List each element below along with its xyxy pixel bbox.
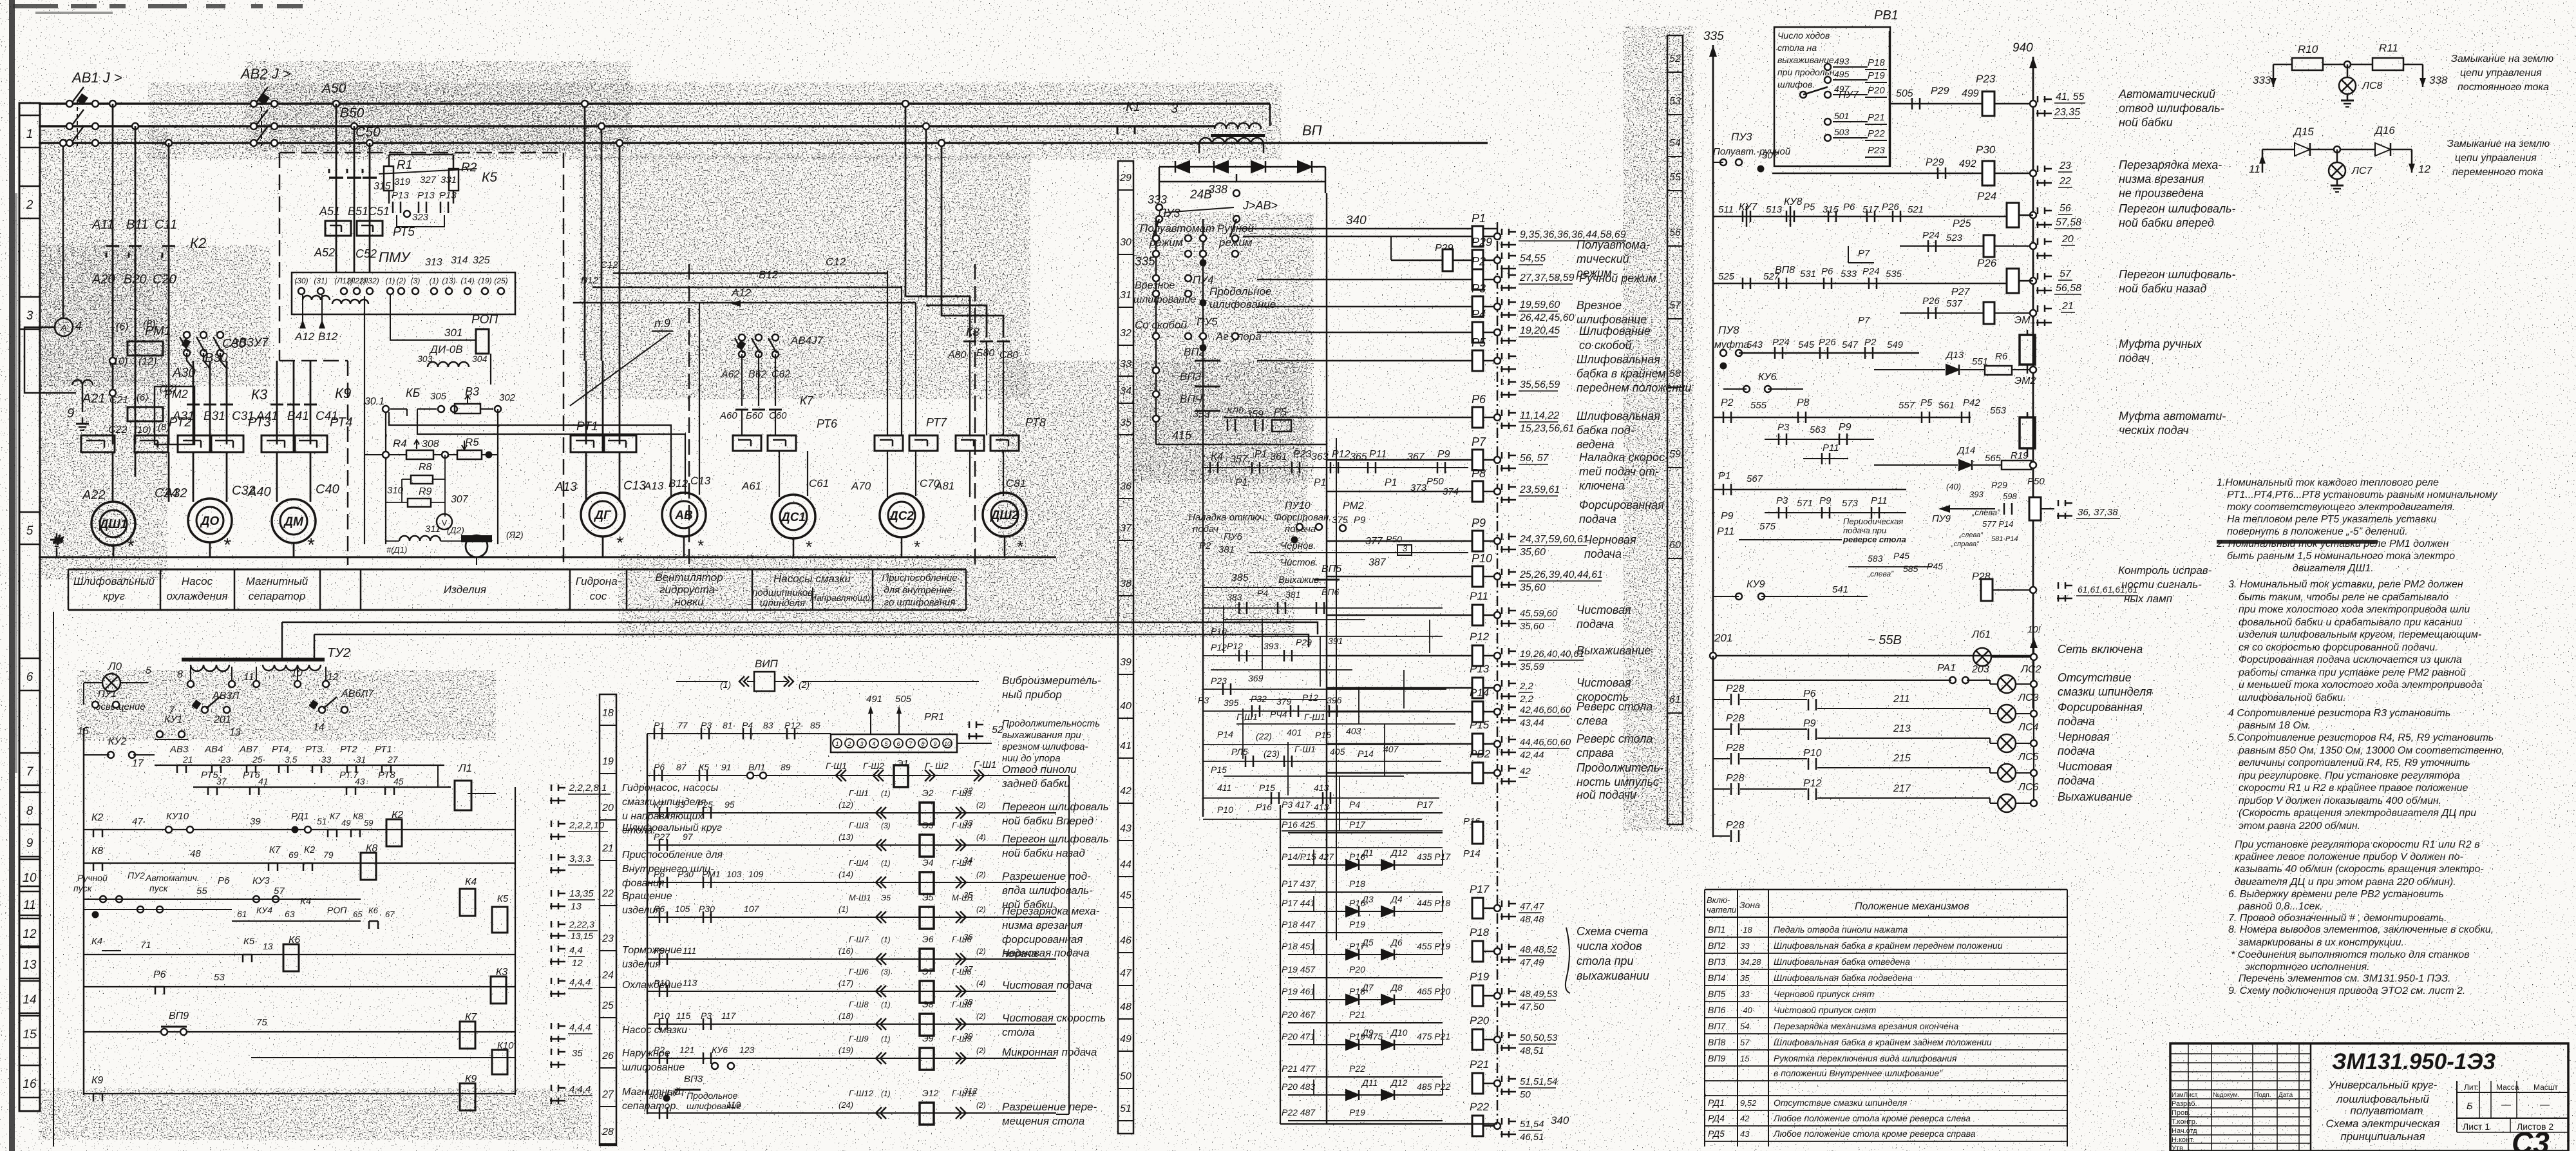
svg-text:сепаратор.: сепаратор. bbox=[622, 1101, 679, 1112]
svg-text:Р18 447: Р18 447 bbox=[1282, 919, 1316, 929]
svg-text:30: 30 bbox=[1120, 237, 1132, 248]
svg-text:(4): (4) bbox=[976, 833, 986, 842]
motor DTs with brush bar bbox=[461, 535, 492, 542]
svg-text:АВ: АВ bbox=[674, 509, 693, 522]
svg-text:Р6: Р6 bbox=[153, 969, 166, 980]
svg-text:Р14: Р14 bbox=[1470, 687, 1489, 699]
svg-text:Чистовая: Чистовая bbox=[2058, 760, 2112, 773]
svg-text:413: 413 bbox=[1314, 783, 1329, 793]
svg-text:405: 405 bbox=[1330, 747, 1345, 757]
wire 11-12 bbox=[2262, 149, 2295, 151]
svg-text:37: 37 bbox=[1120, 523, 1132, 534]
svg-text:С81: С81 bbox=[1006, 477, 1026, 490]
svg-text:Перезарядка механизма врезания: Перезарядка механизма врезания окончена bbox=[1774, 1021, 1958, 1031]
svg-text:R19: R19 bbox=[2011, 450, 2029, 461]
svg-text:КУ9: КУ9 bbox=[1747, 579, 1765, 590]
svg-text:(1): (1) bbox=[881, 1089, 891, 1098]
svg-text:15,23,56,61: 15,23,56,61 bbox=[1520, 423, 1575, 434]
svg-text:РД5: РД5 bbox=[1708, 1128, 1725, 1139]
svg-text:Р11: Р11 bbox=[1823, 442, 1839, 453]
svg-text:Шлифовальная: Шлифовальная bbox=[1577, 353, 1660, 366]
svg-text:Р2: Р2 bbox=[1199, 540, 1211, 551]
svg-text:(Д2): (Д2) bbox=[447, 525, 464, 535]
svg-text:С40: С40 bbox=[316, 482, 339, 497]
svg-text:Насосы смазки: Насосы смазки bbox=[773, 573, 851, 585]
rung P2 555 P8 557 bbox=[1713, 417, 1971, 419]
dashed enclosure bbox=[279, 152, 563, 154]
svg-text:переднем положении: переднем положении bbox=[1577, 381, 1691, 394]
svg-text:Р28: Р28 bbox=[1726, 820, 1745, 831]
svg-text:393: 393 bbox=[1264, 641, 1279, 651]
svg-text:А41: А41 bbox=[256, 410, 278, 423]
svg-text:Чистовой припуск снят: Чистовой припуск снят bbox=[1774, 1005, 1877, 1015]
svg-text:48,51: 48,51 bbox=[1520, 1045, 1544, 1056]
svg-text:Р3: Р3 bbox=[1777, 422, 1790, 433]
svg-text:Г-Ш12: Г-Ш12 bbox=[849, 1089, 874, 1098]
svg-text:35,60: 35,60 bbox=[1520, 582, 1546, 593]
latch loop verticals bbox=[1313, 850, 1314, 865]
svg-text:387: 387 bbox=[1368, 557, 1387, 568]
svg-text:А60: А60 bbox=[719, 410, 737, 421]
svg-text:(Я2): (Я2) bbox=[506, 529, 524, 540]
svg-text:Гидронасос, насосы: Гидронасос, насосы bbox=[622, 783, 719, 794]
svg-text:338: 338 bbox=[2429, 74, 2448, 86]
svg-text:Р28: Р28 bbox=[1726, 743, 1745, 754]
svg-text:Г-Ш2: Г-Ш2 bbox=[863, 761, 884, 771]
svg-text:537: 537 bbox=[1946, 298, 1963, 309]
svg-text:Черновой припуск снят: Черновой припуск снят bbox=[1774, 989, 1875, 999]
svg-text:111: 111 bbox=[683, 946, 696, 956]
svg-text:А20: А20 bbox=[91, 272, 115, 287]
svg-text:Д1: Д1 bbox=[1361, 848, 1374, 858]
svg-text:(8): (8) bbox=[143, 319, 156, 330]
svg-text:КУ4: КУ4 bbox=[256, 905, 272, 915]
heavier speckle patches bbox=[148, 82, 1282, 160]
svg-text:ДШ2: ДШ2 bbox=[990, 509, 1019, 522]
sheet border segment bottom-left bbox=[53, 612, 54, 1146]
svg-text:С51: С51 bbox=[368, 205, 390, 218]
svg-text:Р25: Р25 bbox=[1953, 218, 1971, 229]
svg-text:—: — bbox=[2539, 1099, 2550, 1110]
svg-text:549: 549 bbox=[1887, 339, 1904, 350]
svg-text:213: 213 bbox=[1893, 723, 1911, 734]
svg-text:Г- Ш2: Г- Ш2 bbox=[925, 761, 949, 771]
svg-text:·23·: ·23· bbox=[218, 754, 234, 765]
svg-text:Лит.: Лит. bbox=[2464, 1083, 2478, 1092]
svg-text:А50: А50 bbox=[321, 81, 346, 96]
svg-text:503: 503 bbox=[1834, 127, 1850, 137]
svg-text:43: 43 bbox=[1740, 1129, 1750, 1139]
svg-text:Р17 441: Р17 441 bbox=[1282, 898, 1315, 908]
svg-text:4,4: 4,4 bbox=[569, 945, 583, 956]
svg-text:43: 43 bbox=[355, 776, 365, 786]
svg-text:32: 32 bbox=[963, 786, 973, 795]
svg-text:35: 35 bbox=[1120, 417, 1132, 428]
svg-text:55: 55 bbox=[1669, 172, 1681, 183]
svg-text:Р23: Р23 bbox=[1211, 676, 1227, 686]
svg-text:Р23: Р23 bbox=[1293, 449, 1312, 460]
svg-text:21: 21 bbox=[2061, 301, 2074, 312]
svg-text:ВП8: ВП8 bbox=[1708, 1037, 1725, 1047]
svg-text:Р29: Р29 bbox=[1991, 480, 2007, 490]
svg-text:А40: А40 bbox=[247, 485, 271, 499]
svg-text:ПУ8: ПУ8 bbox=[1718, 324, 1739, 336]
svg-text:18: 18 bbox=[602, 708, 614, 719]
svg-text:шлифование: шлифование bbox=[1577, 313, 1647, 326]
svg-text:Насос: Насос bbox=[182, 575, 213, 587]
svg-text:тический: тический bbox=[1577, 252, 1629, 265]
motor DS2 bbox=[880, 493, 923, 537]
svg-text:КУ6: КУ6 bbox=[1758, 372, 1777, 383]
svg-text:307: 307 bbox=[451, 494, 469, 505]
svg-text:577 Р14: 577 Р14 bbox=[1982, 519, 2013, 529]
rung P30 (492) bbox=[1772, 173, 1983, 175]
svg-text:КУ8: КУ8 bbox=[1784, 196, 1803, 207]
svg-text:Р3: Р3 bbox=[701, 720, 712, 730]
svg-text:50,50,53: 50,50,53 bbox=[1520, 1032, 1558, 1043]
power bus L2 bbox=[39, 125, 1215, 128]
svg-text:Р17: Р17 bbox=[1417, 799, 1434, 810]
svg-text:567: 567 bbox=[1747, 473, 1763, 484]
title left grid bbox=[2170, 1053, 2311, 1054]
svg-text:23: 23 bbox=[601, 933, 614, 944]
svg-text:С60: С60 bbox=[769, 410, 787, 421]
svg-text:33: 33 bbox=[1740, 989, 1750, 999]
svg-text:Г-Ш8: Г-Ш8 bbox=[849, 1000, 869, 1009]
svg-text:со скобой: со скобой bbox=[1579, 339, 1632, 352]
svg-text:Дата: Дата bbox=[2278, 1092, 2293, 1099]
power bus L3 bbox=[39, 142, 1488, 144]
svg-text:Замыкание на землю: Замыкание на землю bbox=[2451, 53, 2553, 64]
svg-text:КУ3: КУ3 bbox=[252, 875, 270, 886]
svg-text:507: 507 bbox=[1762, 150, 1779, 161]
counting rungs with diodes D1-D12 bbox=[1288, 812, 1443, 813]
svg-text:Форсирован.: Форсирован. bbox=[1274, 512, 1331, 523]
svg-text:Муфта ручных: Муфта ручных bbox=[2119, 338, 2202, 350]
svg-text:Р18: Р18 bbox=[1470, 926, 1490, 938]
svg-text:(1): (1) bbox=[881, 789, 891, 798]
svg-text:Р22: Р22 bbox=[1868, 128, 1885, 139]
svg-text:низма врезания: низма врезания bbox=[2119, 173, 2204, 185]
svg-text:20: 20 bbox=[2061, 234, 2074, 245]
svg-text:·40·: ·40· bbox=[1740, 1005, 1755, 1015]
svg-text:Р1: Р1 bbox=[1255, 449, 1267, 460]
svg-text:Р21: Р21 bbox=[1868, 112, 1885, 123]
svg-text:56,58: 56,58 bbox=[2056, 283, 2081, 294]
svg-text:44,46,60,60: 44,46,60,60 bbox=[1520, 737, 1571, 748]
svg-text:1.Номинальный ток каждого т: 1.Номинальный ток каждого теплового реле bbox=[2217, 477, 2439, 488]
motor DG feeders bbox=[585, 361, 587, 444]
55V right rail bbox=[2033, 638, 2034, 803]
svg-text:ЛС4: ЛС4 bbox=[2018, 722, 2039, 733]
svg-text:35,59: 35,59 bbox=[1520, 661, 1544, 672]
svg-text:В41: В41 bbox=[287, 410, 309, 423]
svg-text:71: 71 bbox=[140, 940, 151, 951]
svg-text:45: 45 bbox=[1120, 890, 1132, 901]
svg-text:быть равным 1,5 номинального: быть равным 1,5 номинального тока электр… bbox=[2227, 551, 2455, 562]
svg-text:47: 47 bbox=[1120, 968, 1132, 979]
svg-text:М-Ш1: М-Ш1 bbox=[849, 893, 871, 902]
svg-text:*: * bbox=[307, 535, 315, 556]
svg-text:постоянного тока: постоянного тока bbox=[2458, 82, 2549, 93]
svg-text:бабка под-: бабка под- bbox=[1577, 424, 1634, 437]
left feeder drop to ammeter bbox=[62, 143, 64, 318]
svg-text:ЭМ2: ЭМ2 bbox=[2014, 376, 2036, 386]
svg-text:А81: А81 bbox=[934, 480, 954, 492]
svg-text:ной бабки вперед: ной бабки вперед bbox=[2119, 216, 2214, 229]
svg-text:Полуавтомат: Полуавтомат bbox=[1140, 222, 1215, 234]
svg-text:Р15: Р15 bbox=[1315, 730, 1331, 740]
svg-text:Д12: Д12 bbox=[1390, 1078, 1408, 1088]
svg-text:583: 583 bbox=[1868, 553, 1883, 564]
svg-text:мещения стола: мещения стола bbox=[1002, 1115, 1084, 1127]
svg-text:15: 15 bbox=[1740, 1054, 1750, 1063]
svg-text:Р6: Р6 bbox=[1843, 202, 1855, 213]
svg-text:А52: А52 bbox=[314, 246, 335, 259]
svg-text:Р4: Р4 bbox=[1349, 799, 1360, 810]
svg-text:215: 215 bbox=[1893, 753, 1911, 764]
svg-text:59: 59 bbox=[364, 818, 373, 828]
svg-text:С12: С12 bbox=[826, 256, 846, 268]
svg-text:Гидрона-: Гидрона- bbox=[576, 575, 621, 587]
svg-text:6. Выдержку времени реле РВ: 6. Выдержку времени реле РВ2 установить bbox=[2228, 889, 2444, 900]
svg-text:499: 499 bbox=[1962, 88, 1979, 99]
svg-text:Р23: Р23 bbox=[1868, 145, 1885, 156]
diode bridge bbox=[1175, 161, 1189, 173]
svg-text:Любое положение стола кроме: Любое положение стола кроме реверса слев… bbox=[1773, 1113, 1971, 1123]
svg-text:97: 97 bbox=[683, 832, 694, 842]
svg-text:6: 6 bbox=[896, 741, 900, 747]
svg-text:Р9: Р9 bbox=[1721, 511, 1734, 522]
svg-text:Охлаждение: Охлаждение bbox=[622, 980, 682, 991]
svg-text:19,59,60: 19,59,60 bbox=[1520, 300, 1560, 310]
svg-text:14: 14 bbox=[313, 722, 325, 733]
svg-text:стола на: стола на bbox=[1777, 43, 1817, 53]
svg-text:Э6: Э6 bbox=[922, 934, 934, 944]
svg-text:ЛС8: ЛС8 bbox=[2362, 81, 2383, 91]
svg-text:13: 13 bbox=[263, 941, 273, 951]
svg-text:подача: подача bbox=[1577, 618, 1614, 631]
PMU jumpers bbox=[303, 296, 330, 300]
svg-text:величины сопротивлений R4, R: величины сопротивлений R4, R5, R9 уточни… bbox=[2239, 757, 2470, 768]
svg-text:РТ3.: РТ3. bbox=[305, 744, 325, 755]
svg-text:РД1: РД1 bbox=[1708, 1098, 1725, 1108]
right rail of left ladder bbox=[515, 787, 516, 1095]
svg-text:305: 305 bbox=[430, 391, 447, 402]
svg-text:пуск: пуск bbox=[149, 883, 169, 893]
svg-text:Р11: Р11 bbox=[1871, 495, 1888, 506]
svg-text:Р13: Р13 bbox=[1470, 663, 1490, 675]
svg-text:(8): (8) bbox=[158, 422, 169, 433]
svg-text:45: 45 bbox=[393, 776, 404, 786]
svg-text:ВП2: ВП2 bbox=[1184, 346, 1206, 358]
svg-text:сепаратор: сепаратор bbox=[249, 590, 306, 602]
svg-text:Чистовая подача: Чистовая подача bbox=[1002, 979, 1092, 991]
svg-text:Педаль отвода пиноли нажата: Педаль отвода пиноли нажата bbox=[1774, 924, 1908, 935]
svg-text:РТ1...РТ4,РТ6...РТ8 установить: РТ1...РТ4,РТ6...РТ8 установить равным но… bbox=[2227, 490, 2498, 500]
motor branch DO wires bbox=[193, 361, 194, 444]
svg-text:В31: В31 bbox=[204, 410, 225, 423]
svg-text:34,28: 34,28 bbox=[1740, 957, 1761, 967]
motor DS1 bbox=[772, 495, 815, 538]
branch A11 B11 C11 bbox=[109, 100, 116, 107]
svg-text:5.Сопротивление резисторов R: 5.Сопротивление резисторов R4, R5, R9 ус… bbox=[2228, 732, 2494, 743]
svg-text:подшипников: подшипников bbox=[752, 587, 813, 598]
svg-text:R5: R5 bbox=[465, 436, 479, 448]
svg-text:363: 363 bbox=[1311, 452, 1329, 462]
svg-text:замаркированы в их констру: замаркированы в их конструкции. bbox=[2238, 937, 2404, 948]
svg-text:9,52: 9,52 bbox=[1740, 1098, 1757, 1108]
svg-text:365: 365 bbox=[1350, 452, 1367, 462]
svg-text:(Л32): (Л32) bbox=[360, 276, 379, 285]
svg-text:реверсе стола: реверсе стола bbox=[1842, 535, 1906, 544]
svg-text:9: 9 bbox=[67, 406, 74, 421]
svg-text:В12: В12 bbox=[759, 269, 779, 281]
switch table bbox=[1705, 889, 2067, 891]
svg-text:отвод шлифоваль-: отвод шлифоваль- bbox=[2119, 102, 2224, 115]
svg-text:52: 52 bbox=[1669, 53, 1681, 64]
svg-text:Утв.: Утв. bbox=[2172, 1145, 2185, 1151]
svg-text:ЛС2: ЛС2 bbox=[2020, 664, 2041, 675]
svg-text:Р13: Р13 bbox=[439, 190, 457, 201]
svg-text:А32: А32 bbox=[164, 486, 187, 500]
svg-text:цепи управления: цепи управления bbox=[2460, 68, 2542, 79]
svg-text:Реверс стола: Реверс стола bbox=[1577, 732, 1653, 745]
svg-text:Р29: Р29 bbox=[1931, 86, 1949, 97]
svg-text:К2: К2 bbox=[304, 844, 316, 855]
svg-text:ДМ: ДМ bbox=[283, 515, 304, 529]
svg-text:(19): (19) bbox=[478, 276, 491, 285]
svg-text:513: 513 bbox=[1766, 204, 1783, 215]
svg-text:517: 517 bbox=[1862, 204, 1879, 215]
svg-text:50: 50 bbox=[1520, 1089, 1531, 1100]
svg-text:557: 557 bbox=[1899, 400, 1915, 411]
svg-text:8: 8 bbox=[177, 669, 183, 680]
svg-text:1: 1 bbox=[835, 741, 838, 747]
svg-text:Р21 477: Р21 477 bbox=[1282, 1063, 1316, 1074]
svg-text:44: 44 bbox=[1120, 859, 1132, 870]
svg-text:79: 79 bbox=[323, 850, 334, 860]
svg-text:39: 39 bbox=[1120, 657, 1132, 668]
svg-text:Выхаживание: Выхаживание bbox=[1577, 644, 1651, 657]
svg-text:Р23: Р23 bbox=[1976, 73, 1996, 85]
svg-text:Перезарядка меха-: Перезарядка меха- bbox=[2119, 158, 2222, 171]
svg-text:№докум.: №докум. bbox=[2213, 1092, 2239, 1099]
svg-text:R2: R2 bbox=[461, 161, 477, 175]
svg-text:А31: А31 bbox=[172, 410, 194, 423]
svg-text:Р20 467: Р20 467 bbox=[1282, 1009, 1316, 1020]
svg-text:АВ2 Ј >: АВ2 Ј > bbox=[240, 66, 291, 82]
svg-text:Р30: Р30 bbox=[677, 869, 694, 879]
svg-text:413: 413 bbox=[1314, 802, 1329, 812]
svg-text:ВП3: ВП3 bbox=[1180, 370, 1202, 383]
svg-text:340: 340 bbox=[1346, 214, 1367, 227]
svg-text:505: 505 bbox=[895, 694, 912, 705]
bottom ladder left rail bbox=[1280, 805, 1281, 1124]
svg-text:R9: R9 bbox=[419, 486, 432, 497]
svg-text:Р9: Р9 bbox=[1354, 515, 1366, 526]
svg-text:369: 369 bbox=[1248, 673, 1264, 683]
svg-text:фовальной бабки и срабатыва: фовальной бабки и срабатывало при касани… bbox=[2239, 617, 2463, 628]
svg-text:91: 91 bbox=[721, 762, 732, 772]
svg-text:освещение: освещение bbox=[95, 701, 146, 712]
svg-text:493: 493 bbox=[1834, 56, 1850, 66]
svg-text:563: 563 bbox=[1810, 424, 1826, 435]
svg-text:Р1: Р1 bbox=[1718, 471, 1731, 482]
svg-text:Р1: Р1 bbox=[1472, 212, 1486, 225]
svg-text:396: 396 bbox=[1327, 695, 1342, 705]
svg-text:312: 312 bbox=[963, 1086, 978, 1096]
svg-text:R11: R11 bbox=[2379, 42, 2398, 54]
svg-text:Р5: Р5 bbox=[1803, 202, 1815, 213]
svg-text:19: 19 bbox=[602, 756, 614, 767]
svg-text:А61: А61 bbox=[741, 480, 761, 492]
svg-text:Чистовая скорость: Чистовая скорость bbox=[1002, 1012, 1106, 1024]
svg-text:10: 10 bbox=[291, 668, 303, 679]
svg-text:61: 61 bbox=[237, 909, 247, 919]
svg-text:R10: R10 bbox=[2298, 43, 2318, 55]
svg-text:Сеть включена: Сеть включена bbox=[2058, 643, 2143, 656]
svg-text:Шлифовальная бабка в крайнем п: Шлифовальная бабка в крайнем переднем по… bbox=[1774, 940, 2003, 951]
svg-text:току соответствующего электр: току соответствующего электродвигателя. bbox=[2227, 502, 2455, 513]
svg-text:К8: К8 bbox=[91, 846, 103, 857]
svg-text:1: 1 bbox=[26, 128, 33, 141]
svg-text:Схема счета: Схема счета bbox=[1577, 925, 1648, 938]
svg-text:R6: R6 bbox=[1995, 351, 2008, 362]
left rail of regulator cluster bbox=[364, 296, 365, 544]
svg-text:Вклю-: Вклю- bbox=[1707, 895, 1730, 905]
svg-text:Р16 425: Р16 425 bbox=[1282, 819, 1315, 830]
svg-text:ПУ4: ПУ4 bbox=[1193, 274, 1214, 286]
svg-text:49: 49 bbox=[1120, 1034, 1132, 1045]
svg-text:изделия шлифовальным кругом,: изделия шлифовальным кругом, перемещающи… bbox=[2239, 629, 2481, 640]
svg-text:С52: С52 bbox=[355, 247, 377, 260]
svg-text:115: 115 bbox=[676, 1011, 691, 1021]
svg-text:Контроль исправ-: Контроль исправ- bbox=[2118, 564, 2212, 576]
svg-text:Д10: Д10 bbox=[1390, 1027, 1408, 1038]
selector contacts col bbox=[1153, 235, 1159, 242]
svg-text:смазки шпинделя: смазки шпинделя bbox=[622, 797, 706, 808]
svg-text:60: 60 bbox=[1669, 540, 1681, 551]
svg-text:9: 9 bbox=[26, 837, 33, 850]
svg-text:Перезарядка меха-: Перезарядка меха- bbox=[1002, 905, 1100, 917]
svg-text:ИзмЛист: ИзмЛист bbox=[2172, 1092, 2198, 1099]
svg-text:КУ2: КУ2 bbox=[108, 736, 127, 747]
svg-text:ПУ10: ПУ10 bbox=[1285, 500, 1311, 511]
svg-text:ЛС3: ЛС3 bbox=[2018, 692, 2039, 703]
svg-text:Р18: Р18 bbox=[1868, 57, 1885, 68]
bridge output wires bbox=[1236, 174, 1238, 182]
motor branch DM wires bbox=[276, 361, 278, 444]
svg-text:ВП9: ВП9 bbox=[1708, 1053, 1725, 1063]
svg-text:42: 42 bbox=[1740, 1114, 1750, 1123]
svg-text:(14): (14) bbox=[838, 870, 853, 879]
svg-text:Р24: Р24 bbox=[1772, 337, 1790, 348]
svg-text:Р50: Р50 bbox=[1426, 476, 1444, 487]
svg-text:(30): (30) bbox=[294, 276, 308, 285]
svg-text:ное: ное bbox=[649, 1091, 663, 1101]
svg-text:Отвод пиноли: Отвод пиноли bbox=[1002, 763, 1077, 775]
svg-text:Черновая: Черновая bbox=[2058, 730, 2110, 743]
svg-text:PR1: PR1 bbox=[924, 712, 944, 723]
svg-text:Г-Ш9: Г-Ш9 bbox=[849, 1034, 869, 1043]
motor DSh2 bbox=[983, 493, 1027, 537]
svg-text:ВП: ВП bbox=[1302, 122, 1322, 138]
svg-text:Продольное: Продольное bbox=[1209, 285, 1272, 298]
svg-text:107: 107 bbox=[744, 904, 760, 914]
svg-text:375: 375 bbox=[1332, 515, 1349, 526]
svg-text:57: 57 bbox=[1740, 1038, 1750, 1047]
